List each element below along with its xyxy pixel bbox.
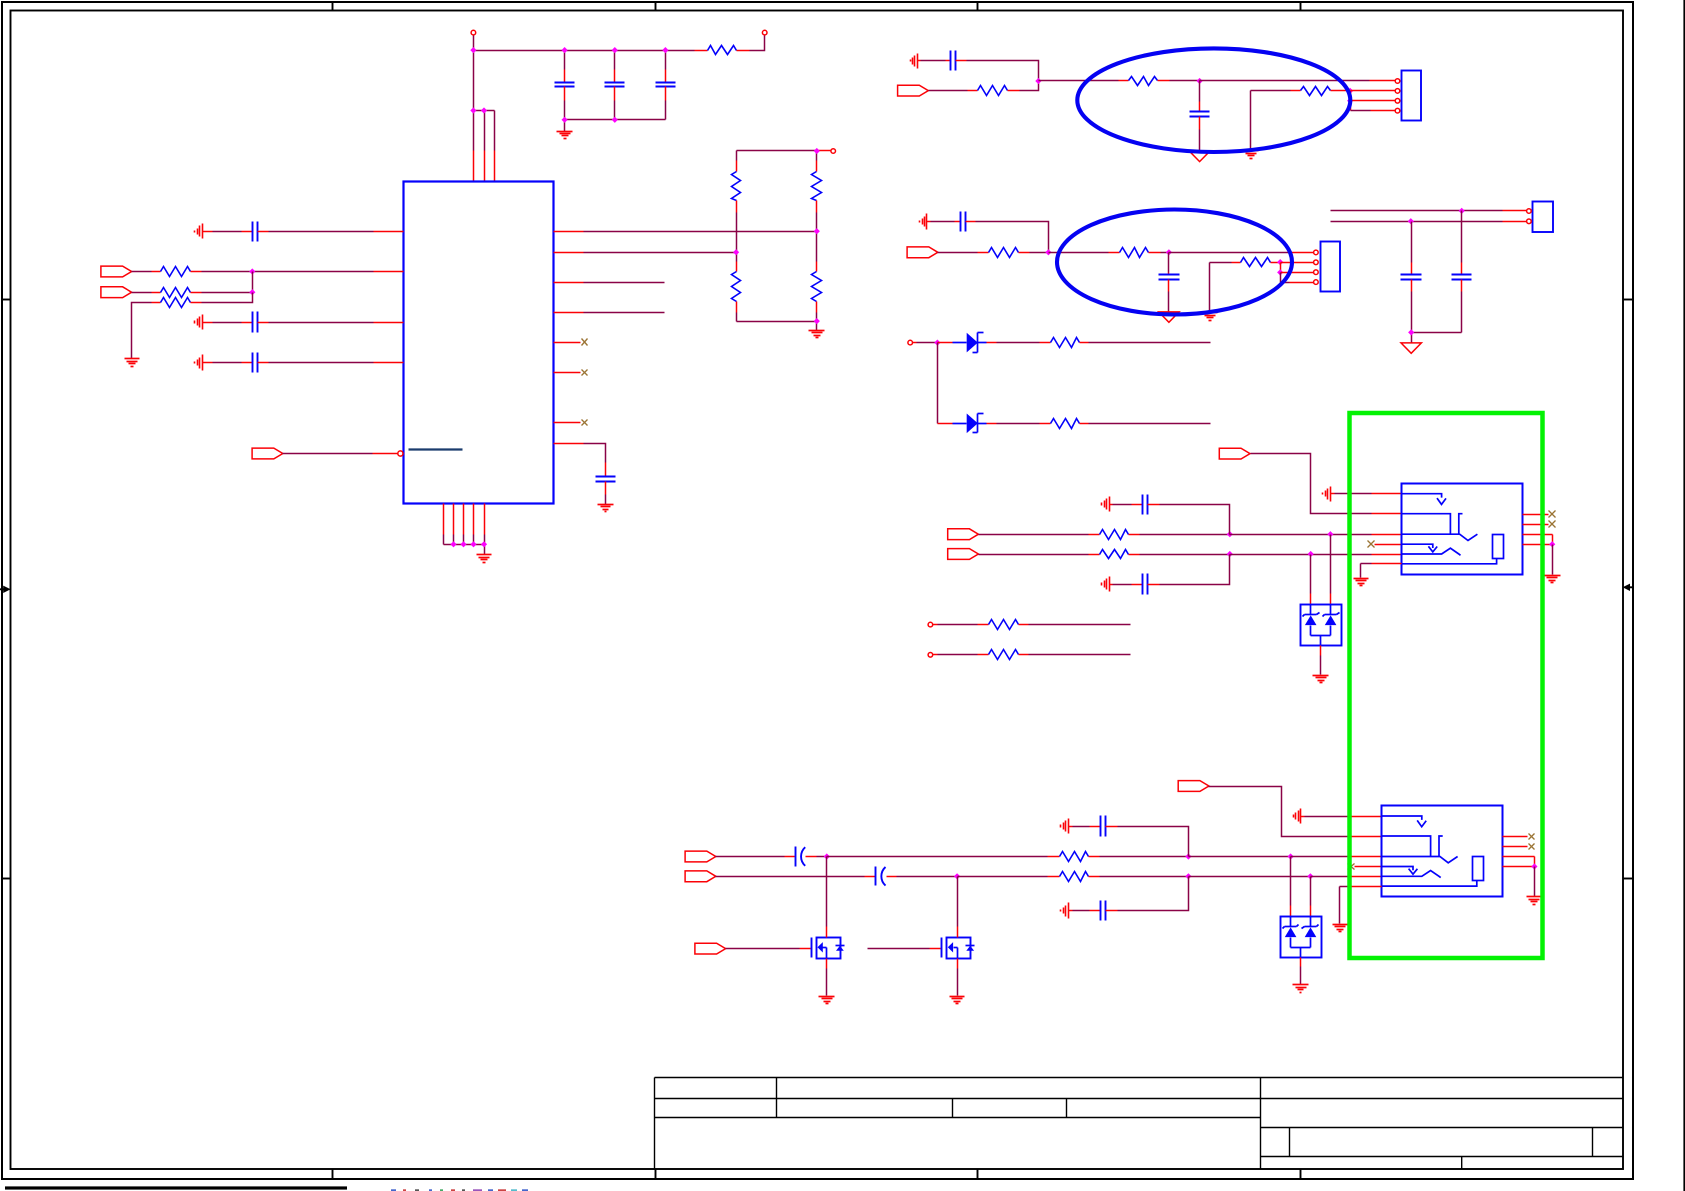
capacitor C15	[1110, 584, 1113, 586]
capacitor C3	[665, 51, 667, 70]
wire U1 pin row4	[554, 312, 584, 314]
capacitor C2	[614, 51, 616, 70]
wire divider top bus	[737, 150, 817, 152]
wire C15 to node L	[1160, 555, 1230, 585]
wire node K to TVS1 pin2	[1330, 535, 1332, 594]
wire node I down	[937, 343, 939, 424]
resistor R21	[1048, 856, 1060, 858]
wire to IC top pins	[474, 110, 495, 112]
wire divider bottom bus	[816, 313, 818, 322]
resistor R19	[979, 534, 1089, 536]
transistor Q1	[817, 938, 841, 959]
TVS diode D4	[1281, 917, 1322, 958]
no-connect jack1 right pin2	[1523, 524, 1549, 526]
ground AGND	[1189, 151, 1209, 161]
resistor R5	[736, 151, 738, 161]
wire node N to R21	[827, 856, 1048, 858]
resistor R8	[816, 232, 818, 262]
wire jack2 right pin3	[1503, 856, 1535, 858]
wire node T to TVS2 pin2	[1310, 877, 1312, 906]
wire Q1 source to ground	[826, 959, 828, 969]
wire node A to node B	[252, 272, 254, 293]
no-connect pin	[554, 372, 581, 374]
wire R3 to node B	[202, 292, 253, 294]
wire net line1	[1331, 210, 1462, 212]
capacitor C17 polarized	[865, 876, 876, 878]
junction node H	[1277, 259, 1283, 265]
wire jack2 right pin4	[1503, 866, 1535, 868]
wire P12 to jack2 pin2	[1209, 787, 1351, 837]
ground	[1244, 150, 1259, 152]
ground	[1313, 675, 1329, 677]
junction dot	[1408, 329, 1414, 335]
resistor R6	[736, 253, 738, 262]
capacitor C7	[605, 463, 607, 477]
inverted pin bubble U1	[398, 451, 403, 456]
wire U1 pin row3	[554, 282, 584, 284]
highlight ellipse 2	[1057, 210, 1292, 315]
resistor R12	[938, 252, 978, 254]
audio jack J4	[1401, 484, 1522, 575]
wire R22 to node S	[1100, 876, 1189, 878]
no-connect pin	[554, 342, 581, 344]
wire caps ground bus	[1412, 332, 1462, 334]
wire C16 to node N	[817, 856, 827, 858]
capacitor C13	[1461, 211, 1463, 263]
resistor R17	[933, 624, 938, 626]
wire node L to jack1 pin5	[1230, 554, 1311, 556]
ground row F	[926, 214, 928, 230]
wire R18 out	[1029, 654, 1131, 656]
node input pin line2	[928, 653, 933, 658]
resistor R3	[132, 292, 152, 294]
wire R6 to bottom bus	[736, 313, 738, 322]
node input pin	[908, 340, 913, 345]
ground row1	[202, 224, 204, 239]
wire R2 to U1	[202, 271, 374, 273]
wire R7 to mid node	[816, 213, 818, 232]
node input pin line1	[928, 622, 933, 627]
wire R20 to node L	[1140, 554, 1230, 556]
IC U1	[404, 182, 554, 504]
wire D1 to R15	[987, 342, 997, 344]
wire ground to jack2 pin1	[1301, 816, 1305, 818]
resistor R10	[1119, 80, 1129, 82]
junction dot jack1 right	[1549, 541, 1555, 547]
junction dots bottom bus	[450, 541, 456, 547]
wire C18 to node P	[1118, 827, 1189, 857]
port P2	[101, 287, 132, 298]
wire R9 to node C	[1020, 81, 1039, 91]
wire R14 to ground	[1209, 263, 1211, 312]
wire node N to Q1 drain	[826, 857, 828, 927]
junction node K	[1327, 531, 1333, 537]
wire node R to Q2 drain	[957, 877, 959, 927]
wire R4 to ground	[132, 303, 152, 359]
wire node R to R22	[958, 876, 1048, 878]
zener diode D1	[938, 342, 953, 344]
wire C4 to U1	[269, 231, 374, 233]
junction node J	[1227, 531, 1233, 537]
highlight ellipse 1	[1077, 48, 1350, 152]
junction node I	[934, 340, 940, 346]
wire node F to R13	[1049, 252, 1109, 254]
ground	[1527, 896, 1543, 898]
highlight green box	[1350, 413, 1543, 958]
node divider top pin	[831, 149, 836, 154]
capacitor C6	[203, 362, 213, 364]
connector J2	[1321, 242, 1341, 292]
port P5	[907, 247, 938, 258]
resistor R13	[1109, 252, 1120, 254]
wire jack1 right pin4	[1523, 544, 1553, 546]
port P12	[1178, 781, 1209, 792]
wire TVS2 to ground	[1300, 958, 1302, 967]
wire node Q to jack2 pin3	[1291, 856, 1351, 858]
wire Q2 gate	[868, 948, 930, 950]
port P4	[898, 85, 929, 96]
junction node P	[1185, 853, 1191, 859]
junction node T	[1307, 873, 1313, 879]
wire R17 out	[1029, 624, 1131, 626]
capacitor C19	[1069, 910, 1073, 912]
wire R16 out	[1089, 423, 1211, 425]
ground feeder4	[1068, 903, 1070, 919]
port P1	[101, 266, 132, 277]
capacitor C1	[564, 51, 566, 70]
ground	[477, 554, 492, 556]
ground jack2 row1	[1300, 809, 1302, 824]
ground AGND	[1401, 343, 1421, 353]
resistor R18	[933, 654, 938, 656]
resistor R15	[1040, 342, 1051, 344]
capacitor C9	[1199, 81, 1201, 102]
port P6	[1219, 448, 1250, 459]
ground	[598, 504, 614, 506]
wire R10 to node D	[1170, 80, 1200, 82]
capacitor C12	[1411, 222, 1413, 263]
junction dots divider	[814, 148, 820, 154]
wire R5 to R6	[736, 213, 738, 253]
wire U1 bottom ground bus	[443, 535, 445, 545]
wire R13 to node G	[1161, 252, 1169, 254]
zener diode D2	[938, 423, 953, 425]
wire ground to jack1 pin1	[1331, 493, 1335, 495]
wire node J to jack1 pin3	[1230, 534, 1331, 536]
wire C5 to U1	[269, 322, 374, 324]
capacitor C11	[1168, 253, 1170, 273]
node VIN header pin 2	[762, 30, 767, 35]
resistor R1	[695, 50, 708, 52]
wire C8 to node C	[967, 61, 1039, 81]
audio jack J5	[1382, 806, 1503, 897]
ground row6	[202, 355, 204, 371]
port P3	[252, 448, 283, 459]
wire node P to node Q	[1189, 856, 1291, 858]
ground	[819, 996, 835, 998]
wire node D to connector	[1200, 80, 1370, 82]
capacitor C14	[1110, 504, 1113, 506]
ground feeder2	[1109, 577, 1111, 592]
wire R11 to ground	[1250, 91, 1252, 149]
wire C14 to node J	[1160, 505, 1230, 535]
TVS diode D3	[1301, 605, 1342, 646]
junction node D	[1197, 78, 1203, 84]
junction node N	[824, 853, 830, 859]
port P11	[695, 943, 726, 954]
wire P11 to Q1 gate	[726, 948, 800, 950]
junction node R	[954, 873, 960, 879]
wire P10 to C17	[716, 876, 865, 878]
wire jack2 sleeve to ground	[1351, 886, 1382, 888]
ground	[1293, 984, 1309, 986]
ground row E	[917, 54, 919, 69]
ground jack1 row1	[1330, 487, 1332, 502]
junction node B	[249, 289, 255, 295]
wire C6 to U1	[269, 362, 374, 364]
wire C7 to ground	[605, 495, 607, 505]
no-connect jack1 pin4	[1368, 541, 1375, 548]
pin stubs U1 bottom	[443, 504, 445, 535]
transistor Q2	[947, 938, 971, 959]
junction node G	[1166, 249, 1172, 255]
pin stubs IC top	[473, 151, 475, 182]
junction node L	[1227, 551, 1233, 557]
port P9	[685, 851, 716, 862]
connector J1	[1402, 71, 1422, 121]
wire node C to R10	[1039, 80, 1119, 82]
wire TVS1 to ground	[1320, 646, 1322, 656]
no-connect jack1 right pin1	[1523, 514, 1549, 516]
wire node M to TVS1 pin1	[1310, 555, 1312, 594]
wire R15 out	[1089, 342, 1211, 344]
node VIN header pin 1	[471, 30, 476, 35]
wire U1 pin to C7	[554, 443, 584, 445]
port P8	[948, 549, 979, 560]
capacitor C16 polarized	[716, 856, 785, 858]
ground	[809, 330, 825, 332]
wire node G to connector	[1169, 252, 1289, 254]
ground	[557, 131, 573, 133]
connector J3	[1533, 202, 1554, 233]
wire node S to node T	[1189, 876, 1311, 878]
resistor R22	[1048, 876, 1060, 878]
ground row5	[202, 315, 204, 330]
junction node S	[1185, 873, 1191, 879]
resistor R20	[979, 554, 1089, 556]
capacitor C8	[918, 60, 921, 62]
wire to ground	[1534, 867, 1536, 897]
no-connect jack2 right pin2	[1503, 846, 1528, 848]
junction dots top bus	[470, 47, 476, 53]
port P7	[948, 529, 979, 540]
ground	[1203, 312, 1218, 314]
wire R12 to node F	[1030, 252, 1049, 254]
resistor R7	[816, 151, 818, 161]
wire cap ground bus	[565, 119, 666, 121]
capacitor C10	[927, 221, 931, 223]
no-connect pin	[554, 422, 581, 424]
wire R19 to node J	[1140, 534, 1230, 536]
wire U1 pin to divider left	[554, 252, 584, 254]
resistor R4	[152, 302, 161, 304]
ground AGND	[1159, 312, 1179, 322]
wire R4 to node B	[202, 293, 253, 303]
resistor R14	[1210, 262, 1232, 264]
no-connect jack2 right pin1	[1503, 836, 1528, 838]
junction dots connector feed	[1459, 208, 1465, 214]
wire jack1 sleeve to ground	[1372, 563, 1402, 565]
capacitor C4	[203, 231, 213, 233]
ground	[1333, 924, 1348, 926]
wire node Q to TVS2 pin1	[1290, 857, 1292, 906]
no-connect jack2 pin4	[1348, 864, 1355, 870]
capacitor C5	[203, 322, 213, 324]
resistor R16	[1040, 423, 1051, 425]
resistor R9	[929, 90, 968, 92]
wire jack1 right pin3	[1523, 534, 1553, 536]
wire net line2	[1331, 221, 1411, 223]
wire to ground	[1552, 545, 1554, 575]
ground feeder3	[1068, 819, 1070, 834]
junction dot jack2 right	[1531, 863, 1537, 869]
ground	[950, 996, 965, 998]
wire C19 to node S	[1118, 877, 1189, 911]
junction node C	[1035, 78, 1041, 84]
wire U1 pin to divider top	[554, 231, 584, 233]
wire node T to jack2 pin5	[1311, 876, 1351, 878]
resistor R2	[132, 271, 152, 273]
wire R21 to node P	[1100, 856, 1189, 858]
ground	[1354, 578, 1369, 580]
ground	[125, 358, 140, 360]
wire C10 to node F	[976, 222, 1049, 253]
pin name overbar U1	[409, 448, 463, 450]
wire top power bus	[473, 36, 475, 111]
wire P3 to U1 bubble	[283, 453, 373, 455]
ground feeder1	[1109, 497, 1111, 512]
pin wires connector J1	[1351, 90, 1396, 92]
junction node A	[249, 268, 255, 274]
wire R1 to pin2	[750, 36, 765, 51]
junction node M	[1308, 551, 1314, 557]
wire input to node I	[913, 342, 917, 344]
wire D2 to R16	[987, 423, 997, 425]
wire Q2 source to ground	[957, 959, 959, 969]
ground	[1545, 575, 1561, 577]
resistor R11	[1251, 90, 1291, 92]
junction dots IC top feed	[470, 107, 476, 113]
junction node F	[1045, 249, 1051, 255]
capacitor C18	[1069, 826, 1073, 828]
junction node Q	[1288, 853, 1294, 859]
wire C17 to node R	[897, 876, 958, 878]
port P10	[685, 871, 716, 882]
pin wires connector J2	[1281, 262, 1314, 264]
wire P6 to jack1 tip	[1251, 454, 1372, 514]
junction node E	[1347, 88, 1353, 94]
